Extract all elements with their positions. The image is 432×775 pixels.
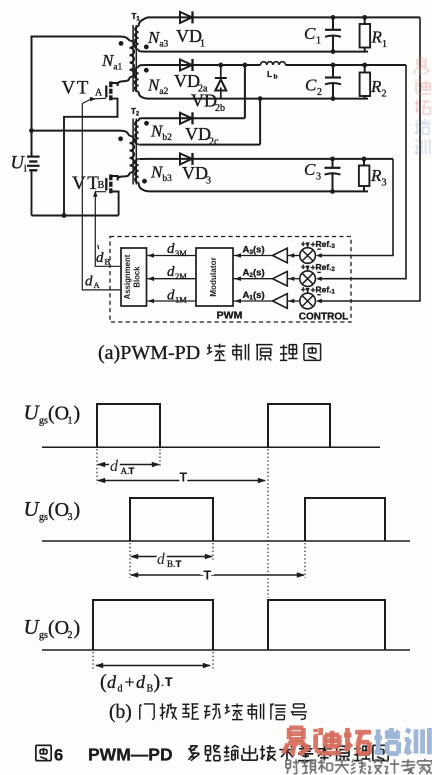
node: bottom rail junction at VT_A source return [62, 213, 67, 218]
svg-text:PWM—PD: PWM—PD [88, 745, 173, 765]
svg-text:A1(s): A1(s) [243, 290, 265, 302]
svg-text:A: A [94, 280, 101, 290]
svg-text:T: T [129, 466, 135, 477]
watermark big orange 易迪拓 [283, 728, 309, 755]
wire: VD2c riser to ch2 rail [244, 65, 246, 118]
transformer T1 secondary winding N_a3 [135, 26, 139, 49]
inductor Lb [261, 62, 286, 65]
svg-text:3: 3 [68, 512, 73, 523]
wire: summing to A3 triangle [288, 255, 300, 257]
svg-text:d: d [167, 264, 175, 280]
svg-text:VD: VD [176, 26, 202, 46]
svg-text:(b): (b) [109, 702, 132, 723]
svg-text:2M: 2M [175, 271, 187, 281]
wire: ch2 return rail [148, 98, 368, 100]
waveform 3 pulse 2 [268, 600, 385, 650]
svg-text:L: L [267, 69, 272, 79]
source U1 battery [27, 156, 40, 158]
guide dotted x=268 (long) [267, 449, 269, 598]
transistor VT_A drain lead [111, 83, 118, 86]
minus sign row 3 [317, 248, 321, 250]
svg-text:(O: (O [48, 499, 69, 521]
svg-text:): ) [74, 403, 81, 425]
reference input Ref.1 [307, 288, 309, 293]
transformer T1 core [132, 25, 134, 92]
svg-text:d: d [107, 672, 117, 692]
reference input Ref.3 [307, 243, 309, 248]
svg-text:1: 1 [316, 36, 321, 47]
wire: ch3 feedback drop (right) [319, 159, 393, 256]
transformer T2 core [132, 119, 134, 185]
svg-text:1: 1 [200, 39, 205, 50]
waveform 1 pulse 2 [268, 404, 330, 447]
op-amp A3(s) triangle [273, 248, 288, 263]
wire: N_a3 bottom terminal [139, 50, 148, 52]
resistor R3 [363, 159, 365, 166]
dashed box PWM+CONTROL [110, 237, 351, 323]
svg-text:gs: gs [39, 512, 48, 523]
wire: ch2 rail after Lb [286, 64, 407, 66]
svg-text:d: d [96, 250, 104, 266]
svg-text:VD: VD [185, 124, 211, 144]
dimension (d_d+d_B).T [96, 665, 210, 667]
wire: N_a3 top terminal [139, 17, 149, 26]
transistor VT_B drain lead [111, 176, 118, 179]
watermark gray slogan [286, 759, 299, 773]
svg-text:3: 3 [206, 176, 211, 187]
svg-text:3: 3 [382, 178, 387, 189]
waveform 1 pulse 1 [97, 404, 160, 447]
svg-text:d: d [157, 551, 165, 568]
svg-text:T: T [180, 471, 188, 485]
svg-text:d: d [136, 672, 146, 692]
capacitor C1 [332, 17, 334, 29]
wire: ch1 feedback drop (right) [319, 17, 420, 301]
wire: d_1M line [148, 300, 197, 302]
node: C1 bottom [331, 49, 336, 54]
polarity dot N_b3 [142, 179, 147, 184]
wire: N_b2 bottom terminal [139, 143, 148, 145]
svg-text:U: U [24, 615, 41, 639]
wire: d_B gate drive [95, 195, 121, 267]
node: VD2c tap [243, 63, 248, 68]
transformer T2 secondary winding N_b2 [135, 121, 139, 145]
svg-text:.: . [161, 675, 164, 689]
wire: VT_A source return (down then along) [64, 99, 118, 215]
svg-text:d: d [85, 274, 93, 290]
svg-text:B: B [98, 180, 105, 191]
polarity dot N_b2 [144, 121, 149, 126]
wire: ch3 bottom rail [150, 190, 368, 192]
guide dotted x=130 [129, 543, 131, 578]
caption trailing chinese [188, 745, 199, 760]
svg-text:R: R [370, 77, 382, 96]
minus sign row 2 [317, 271, 321, 273]
diode VD2b (freewheel, cathode up) [220, 65, 222, 78]
polarity dot T2 primary [118, 136, 123, 141]
svg-text:1M: 1M [175, 294, 187, 304]
waveform 2 pulse 1 [130, 498, 213, 541]
node: C1 top [331, 15, 336, 20]
svg-text:T: T [176, 559, 182, 570]
wire: ch1 top rail [148, 16, 420, 18]
wire: N_b3 top terminal [139, 158, 148, 160]
transistor VT_B channel bar [109, 175, 112, 181]
summing junction 1 [300, 293, 316, 309]
node: R1 top [362, 15, 367, 20]
block: Assignment Block [121, 248, 147, 306]
svg-text:b: b [274, 74, 278, 81]
op-amp A1(s) output line [234, 300, 273, 302]
svg-text:(a)PWM-PD: (a)PWM-PD [98, 342, 200, 364]
svg-text:VD: VD [174, 71, 200, 91]
guide dotted x=305 [304, 543, 306, 578]
svg-text:+: + [301, 263, 306, 272]
wire: N_b2 bottom row [148, 144, 260, 146]
svg-text:VD: VD [191, 91, 217, 111]
reference input Ref.2 [307, 266, 309, 271]
transistor VT_A gate bar [105, 86, 107, 98]
svg-text:2c: 2c [209, 137, 219, 148]
svg-text:(: ( [100, 671, 107, 693]
svg-text:+: + [301, 240, 306, 249]
wire: T2 primary bottom to VT_B drain [118, 173, 130, 181]
op-amp A2(s) output line [234, 278, 273, 280]
svg-text:(O: (O [48, 617, 69, 639]
guide dotted x=93 [92, 652, 94, 671]
transformer T2 primary winding [130, 136, 135, 173]
diode VD1 [180, 12, 192, 23]
wire: N_a2 top terminal [139, 65, 148, 67]
op-amp A3(s) output line [234, 255, 273, 257]
resistor R1 [364, 17, 366, 24]
svg-text:2b: 2b [215, 103, 225, 114]
svg-text:1: 1 [68, 416, 73, 427]
gate drive arrow into VT_A [92, 97, 107, 100]
resistor R2 [364, 65, 366, 73]
wire: summing to A1 triangle [288, 300, 300, 302]
svg-text:A2(s): A2(s) [243, 268, 265, 280]
dimension T (waveform1 period) [98, 480, 265, 482]
feedback arrow into summing 1 [316, 299, 322, 303]
transformer T2 secondary winding N_b3 [135, 159, 139, 182]
waveform 3 pulse 1 [93, 600, 213, 650]
svg-text:2: 2 [382, 89, 387, 100]
node: R2 top [362, 63, 367, 68]
node: R3 top [362, 157, 367, 162]
transformer T1 secondary winding N_a2 [135, 67, 139, 91]
diode VD2a [180, 60, 192, 71]
wire: T1 primary bottom to VT_A drain [118, 77, 130, 86]
svg-text:A3(s): A3(s) [243, 245, 265, 257]
summing junction 3 [300, 248, 316, 264]
svg-text:A: A [95, 88, 103, 99]
minus sign row 1 [317, 294, 321, 296]
wire: d_A gate drive [82, 104, 121, 290]
svg-text:T: T [165, 675, 173, 689]
dimension d_A.T [98, 464, 159, 466]
waveform 3 baseline [42, 649, 410, 651]
svg-text:): ) [74, 499, 81, 521]
svg-text:d: d [167, 241, 175, 257]
svg-text:+: + [301, 285, 306, 294]
svg-text:B: B [105, 257, 111, 267]
svg-text:gs: gs [39, 630, 48, 641]
svg-text:Assignment: Assignment [123, 254, 132, 299]
wire: ch1 bottom rail [148, 51, 368, 53]
polarity dot N_a3 [144, 45, 149, 50]
svg-text:): ) [154, 671, 161, 693]
svg-text:): ) [74, 617, 81, 639]
waveform 2 baseline [42, 540, 410, 542]
svg-text:R: R [371, 28, 383, 47]
node: C3 bottom [330, 189, 335, 194]
svg-text:U: U [24, 497, 41, 521]
op-amp A2(s) triangle [273, 271, 288, 286]
svg-text:C: C [304, 24, 316, 43]
wire: N_a2 bottom terminal [139, 92, 149, 99]
svg-text:B.: B. [167, 559, 175, 569]
wire: N_b2 top terminal [139, 118, 148, 120]
caption 图6 chinese 图 [36, 745, 51, 760]
node: U1 to T2 primary branch junction [29, 128, 34, 133]
svg-text:2: 2 [68, 630, 73, 641]
svg-text:3M: 3M [175, 248, 187, 258]
wire: ch3 top rail [148, 158, 393, 160]
svg-text:PWM: PWM [217, 310, 243, 322]
wire: N_b2 return riser [259, 99, 261, 145]
transistor VT_B gate bar [105, 178, 107, 191]
polarity dot N_a1 [119, 41, 124, 46]
svg-text:Modulator: Modulator [209, 256, 218, 296]
wire: ch2 feedback drop (right) [319, 65, 406, 279]
waveform 2 pulse 2 [305, 498, 385, 541]
summing junction 2 [300, 271, 316, 287]
svg-text:3: 3 [316, 172, 321, 183]
wire: d_2M line [148, 278, 197, 280]
svg-text:U: U [24, 401, 41, 425]
wire: VD2c row [148, 117, 245, 119]
diode VD3 [180, 153, 192, 164]
transformer T1 primary winding N_a1 [130, 41, 135, 78]
node: C3 top [330, 157, 335, 162]
guide dotted x=97 [96, 449, 98, 484]
wire: ch2 top rail segment to Lb [148, 64, 261, 66]
svg-text:d: d [110, 458, 119, 475]
transistor VT_A channel bar [109, 82, 112, 88]
svg-text:VT: VT [72, 173, 100, 194]
wire: d_3M line [148, 255, 197, 257]
svg-text:C: C [304, 160, 316, 179]
svg-text:6: 6 [54, 747, 63, 765]
svg-text:2: 2 [317, 87, 322, 98]
polarity dot N_a2 [144, 68, 149, 73]
op-amp A1(s) triangle [273, 294, 288, 309]
watermark big blue 培训 [374, 728, 400, 754]
capacitor C3 [332, 159, 334, 167]
svg-text:(O: (O [48, 403, 69, 425]
node: C2 bottom [331, 96, 336, 101]
wire: VT_B source to bottom rail [111, 192, 119, 216]
node: C2 top [331, 63, 336, 68]
wire: U1 positive rail to T1 primary top [32, 37, 130, 156]
svg-text:d: d [167, 287, 175, 303]
block: Modulator [196, 248, 233, 306]
guide dotted x=213 [212, 543, 214, 560]
watermark faint top right [414, 59, 429, 75]
svg-text:B: B [147, 684, 154, 695]
svg-text:VD: VD [182, 163, 208, 183]
caption (b) chinese part [140, 704, 154, 720]
label d_B [97, 245, 100, 249]
wire: U1 negative to bottom rail [31, 171, 33, 216]
feedback arrow into summing 3 [316, 253, 322, 257]
wire: N_b3 bottom terminal [139, 183, 150, 192]
svg-text:Block: Block [133, 266, 142, 288]
dimension d_B.T [131, 556, 212, 558]
feedback arrow into summing 2 [316, 277, 322, 281]
svg-text:T: T [204, 569, 212, 583]
svg-text:1: 1 [382, 39, 387, 50]
svg-text:C: C [305, 76, 317, 95]
waveform 1 baseline [42, 446, 380, 448]
wire: branch to T2 primary top [32, 131, 130, 136]
node: ch2 return junction to N_b2 [258, 96, 263, 101]
wire: bottom rail [32, 215, 119, 217]
node: VD2b tap [218, 63, 223, 68]
capacitor C2 [332, 65, 334, 77]
guide dotted x=160 [159, 449, 161, 467]
wire: summing to A2 triangle [288, 278, 300, 280]
svg-text:VT: VT [62, 78, 90, 99]
svg-text:d: d [118, 684, 123, 695]
svg-text:R: R [370, 166, 382, 185]
transistor VT_A source lead [111, 99, 118, 100]
svg-text:CONTROL: CONTROL [299, 312, 348, 323]
svg-text:gs: gs [39, 416, 48, 427]
gate drive arrow into VT_B [94, 192, 96, 194]
diode VD2c [180, 113, 192, 124]
svg-text:+: + [125, 672, 135, 692]
guide dotted x=213b [212, 652, 214, 671]
caption (a) chinese part [207, 344, 226, 361]
dimension T (waveform2 period) [131, 574, 304, 576]
